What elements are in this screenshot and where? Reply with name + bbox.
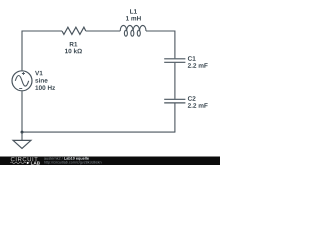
voltage source V1 name label xyxy=(35,71,43,75)
footer CircuitLab logo word CIRCUIT xyxy=(11,157,38,161)
capacitor C1 xyxy=(164,59,185,63)
inductor L1 value label xyxy=(126,16,141,20)
capacitor C1 name label xyxy=(188,56,196,61)
voltage source V1 plus sign xyxy=(22,72,25,75)
wire top-right horizontal xyxy=(146,30,175,32)
capacitor C2 xyxy=(164,99,185,103)
voltage source V1 frequency label xyxy=(35,85,55,90)
resistor R1 value label xyxy=(65,49,82,54)
wire right vertical middle xyxy=(174,63,176,99)
footer logo arrow glyph xyxy=(27,162,30,165)
voltage source V1 type label xyxy=(35,78,47,83)
capacitor C2 value label xyxy=(188,103,208,107)
voltage source V1 sine wave xyxy=(15,76,28,87)
footer bar xyxy=(0,157,220,166)
resistor R1 name label xyxy=(70,42,78,46)
resistor R1 xyxy=(62,27,86,34)
node junction dot bottom-left xyxy=(21,131,24,134)
voltage source V1 circle xyxy=(12,71,32,91)
footer credit circuit name xyxy=(64,157,89,161)
footer credit url xyxy=(44,161,101,164)
inductor L1 name label xyxy=(130,9,137,13)
voltage source V1 minus sign xyxy=(19,88,22,90)
ground stub wire xyxy=(21,132,23,140)
wire left vertical upper xyxy=(21,31,23,71)
wire right vertical upper xyxy=(174,31,176,59)
wire top-left horizontal xyxy=(22,30,62,32)
footer logo sine squiggle xyxy=(11,162,26,164)
wire bottom horizontal xyxy=(22,131,175,133)
capacitor C1 value label xyxy=(188,63,208,67)
inductor L1 xyxy=(120,25,146,36)
capacitor C2 name label xyxy=(188,96,196,101)
wire left vertical lower xyxy=(21,91,23,132)
footer credit username xyxy=(44,157,63,160)
wire right vertical lower xyxy=(174,103,176,132)
footer logo word LAB xyxy=(31,161,40,164)
ground xyxy=(13,140,31,148)
wire top-middle horizontal xyxy=(86,30,120,32)
